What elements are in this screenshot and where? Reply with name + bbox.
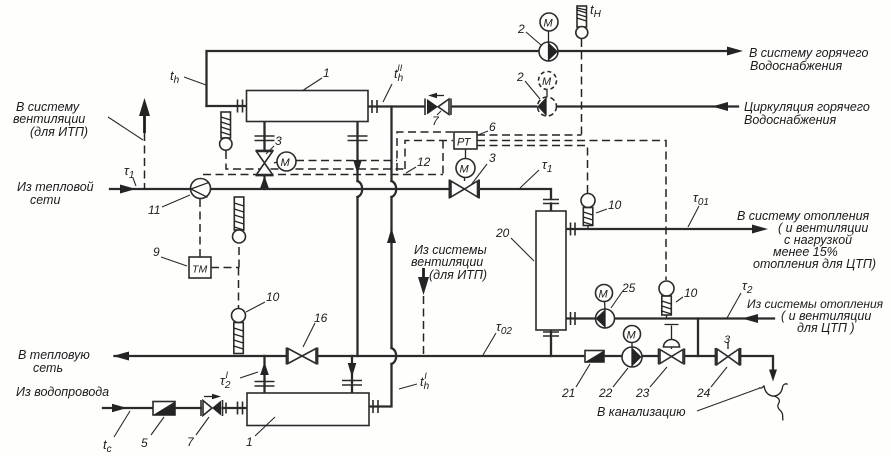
- flange tank top: [543, 200, 559, 204]
- svg-text:М: М: [542, 76, 552, 88]
- wire dashed: TM box to thermometers riser: [211, 267, 239, 269]
- pump 2 (standby DHW pump, dashed): [538, 90, 557, 117]
- wire HX1 left port: [207, 105, 247, 107]
- wire dashed riser to ventilation system (for ITP): [144, 133, 146, 189]
- wire HX1 lower-left pipe to valve 3: [263, 122, 265, 190]
- wire dashed row A from HX1 thermometer: [226, 151, 405, 169]
- svg-text:3: 3: [489, 151, 496, 165]
- wire dashed: riser down to lower thermometer: [238, 268, 240, 309]
- svg-text:2: 2: [517, 22, 525, 36]
- thermometer 10 on tau01 line: [581, 194, 595, 230]
- node flow arrow circulation (points left): [712, 102, 728, 111]
- wire dashed row from valve 3 motor M to telemetry box: [296, 160, 397, 162]
- wire riser t_h from lower HX to circulation junction: [370, 107, 392, 407]
- svg-text:2: 2: [516, 70, 524, 84]
- svg-text:М: М: [599, 289, 609, 301]
- thermometer 10 on tau2 line: [659, 281, 674, 319]
- svg-text:3: 3: [275, 134, 282, 148]
- node thick arrow up to ventilation: [143, 112, 146, 133]
- svg-text:12: 12: [417, 155, 431, 169]
- temperature regulator 6 (PT box): [454, 132, 477, 149]
- svg-text:23: 23: [635, 386, 650, 400]
- svg-text:ТМ: ТМ: [192, 264, 208, 276]
- control valve 23 with diaphragm actuator: [659, 325, 685, 365]
- wire dashed line from ventilation system down to return line: [423, 296, 425, 356]
- wire HX1 lower-right downpipe: [356, 122, 358, 357]
- svg-text:21: 21: [561, 386, 575, 400]
- wire dashed: riser up to upper thermometer bulb: [238, 245, 240, 268]
- flange on downpipe into lower HX: [342, 381, 362, 386]
- wire dashed telemetry box 12 right edge: [442, 141, 444, 175]
- flange on tau2-I pipe: [255, 382, 275, 387]
- flange HX1 bottom-right pipe: [348, 136, 368, 141]
- motor M of pump 22: [624, 326, 641, 343]
- flange lower HX left port: [238, 402, 243, 415]
- svg-text:10: 10: [266, 290, 280, 304]
- check valve 7 on circulation line: [425, 93, 451, 115]
- svg-text:9: 9: [153, 245, 160, 259]
- node flow arrow down into lower HX: [348, 363, 357, 377]
- valve 3 on HX1 bottom-left pipe (vertical bowtie): [256, 151, 274, 176]
- thermometer 10 left of HX1: [220, 112, 232, 150]
- svg-text:3: 3: [724, 334, 731, 346]
- wire dashed from PT regulator to t_H thermometer: [477, 134, 582, 136]
- motor M of valve 3 (main): [465, 149, 466, 181]
- svg-text:вентиляции: вентиляции: [13, 112, 85, 126]
- flange lower HX right port: [373, 400, 378, 413]
- svg-text:1: 1: [246, 435, 253, 449]
- wire tank 20 bottom stem: [550, 330, 552, 356]
- svg-text:для ЦТП ): для ЦТП ): [797, 321, 855, 335]
- flange tank to tau2 pump: [571, 312, 576, 325]
- heat meter box 9 (TM): [189, 257, 211, 278]
- svg-text:(для ИТП): (для ИТП): [429, 268, 487, 282]
- svg-text:Циркуляция горячего: Циркуляция горячего: [744, 100, 870, 114]
- wire dashed from t_H thermometer down to control row: [581, 39, 583, 135]
- node flow arrow up in riser t_h: [387, 228, 396, 243]
- svg-text:5: 5: [141, 436, 148, 450]
- wire return line to heat network (tau02): [115, 356, 774, 371]
- thermometer 10 (upper, supply sensor of heat meter): [233, 197, 246, 243]
- svg-text:М: М: [460, 164, 470, 176]
- flange tank to tau01: [571, 223, 576, 236]
- svg-text:вентиляции: вентиляции: [411, 255, 483, 269]
- thermometer t_H on circulation riser: [576, 6, 588, 39]
- svg-text:РТ: РТ: [457, 137, 472, 149]
- svg-text:20: 20: [495, 226, 510, 240]
- node hop of downpipe over supply line: [358, 181, 363, 197]
- node flow arrow up tau2-I: [260, 362, 269, 375]
- flange HX1 bottom-left pipe: [255, 136, 275, 141]
- svg-text:10: 10: [608, 198, 622, 212]
- node flow arrow to hot water system: [727, 47, 743, 56]
- svg-text:В систему горячего: В систему горячего: [749, 46, 869, 60]
- motor M of valve 3 (upper): [274, 162, 277, 163]
- node hop over return line: [392, 348, 397, 364]
- svg-text:22: 22: [598, 386, 613, 400]
- node flow arrow up into valve 3: [260, 176, 269, 188]
- svg-text:10: 10: [684, 286, 698, 300]
- svg-text:Водоснабжения: Водоснабжения: [750, 59, 843, 73]
- wire cold water line from water supply: [103, 407, 247, 409]
- pump 22 (drain pump): [622, 343, 642, 368]
- node flow arrow to heat network (points left): [113, 352, 129, 361]
- svg-text:25: 25: [621, 281, 636, 295]
- svg-text:Из водопровода: Из водопровода: [16, 385, 109, 399]
- svg-text:сети: сети: [30, 193, 60, 207]
- node flow arrow down to drain funnel: [769, 370, 777, 382]
- wire dashed row B from flow meter 11 to telemetry box: [203, 174, 443, 176]
- wire junction pipe tau2 to drain line: [697, 319, 699, 357]
- pump 25 (mixing pump on tau2): [596, 302, 615, 329]
- svg-text:М: М: [544, 18, 554, 30]
- svg-text:М: М: [281, 157, 291, 169]
- wire tau01 line to heating system: [566, 228, 756, 230]
- node flow arrow down in downpipe: [353, 160, 362, 174]
- wire dashed: flow meter 11 down to heat meter TM: [199, 199, 201, 257]
- motor M of standby pump 2 (dashed): [539, 72, 557, 90]
- drain funnel to sewer: [759, 384, 787, 421]
- svg-text:отопления для ЦТП): отопления для ЦТП): [753, 257, 876, 271]
- wire tau2 line from heating system: [566, 317, 774, 319]
- wire tau2-I pipe from lower HX up to return line: [263, 356, 265, 393]
- motor M of pump 2: [540, 13, 558, 31]
- motor M of pump 25: [596, 285, 613, 302]
- svg-text:16: 16: [314, 311, 328, 325]
- node flow arrow cold water in: [112, 404, 127, 412]
- svg-text:М: М: [627, 330, 637, 342]
- svg-text:11: 11: [148, 203, 160, 217]
- valve 16 on return line: [287, 348, 318, 365]
- check valve 7 on cold water line: [201, 394, 223, 416]
- node flow arrow from heat network: [120, 185, 136, 194]
- wire heat network supply line tau1: [110, 189, 551, 199]
- svg-text:Водоснабжения: Водоснабжения: [744, 113, 837, 127]
- control valve 3 with motor on supply line: [450, 180, 480, 199]
- wire dashed telemetry box 12 outer edge: [397, 132, 453, 171]
- wire top DHW supply line t_h: [207, 51, 738, 106]
- svg-text:6: 6: [489, 120, 496, 134]
- flange HX1 right port: [372, 100, 377, 113]
- shut-off valve 24 on drain branch: [716, 334, 741, 366]
- thermometer 10 (lower, return sensor of heat meter): [232, 309, 246, 354]
- flow meter 11 on supply line: [191, 179, 211, 199]
- svg-text:thII: thII: [394, 63, 404, 84]
- filter (mud collector) 21 on drain line: [585, 351, 604, 363]
- flange HX1 left port: [238, 100, 243, 113]
- svg-text:Из тепловой: Из тепловой: [17, 180, 94, 194]
- flange cold water after check valve: [225, 403, 227, 414]
- svg-text:24: 24: [696, 386, 711, 400]
- node flow arrow from heating system (points left): [742, 314, 758, 323]
- svg-text:(для ИТП): (для ИТП): [30, 125, 88, 139]
- flange tank bottom: [543, 332, 559, 336]
- pump 2 (operating DHW pump): [539, 31, 558, 61]
- wire dashed from PT regulator right to tau2 thermometer: [477, 141, 666, 281]
- wire tank 20 top stem: [550, 204, 552, 212]
- mixing tank 20: [536, 211, 566, 330]
- svg-text:В канализацию: В канализацию: [597, 405, 686, 419]
- filter (mud collector) 5 on cold water line: [153, 402, 175, 416]
- svg-text:сеть: сеть: [33, 361, 63, 375]
- wire pipe from return line down into lower HX: [351, 356, 353, 393]
- svg-text:1: 1: [323, 66, 330, 80]
- heat exchanger 1 (upper, DHW stage II): [247, 91, 369, 122]
- node flow arrow to heating system: [752, 225, 768, 234]
- svg-text:В тепловую: В тепловую: [18, 348, 90, 362]
- wire circulation line: [369, 105, 739, 107]
- wire dashed telemetry box 12 inner edge: [405, 141, 453, 170]
- node hop over supply line: [392, 181, 397, 197]
- wire dashed from PT regulator to tau01 thermometer: [477, 146, 588, 194]
- node thick arrow down from ventilation return: [422, 268, 425, 280]
- heat exchanger 1 (lower, DHW stage I): [247, 393, 369, 426]
